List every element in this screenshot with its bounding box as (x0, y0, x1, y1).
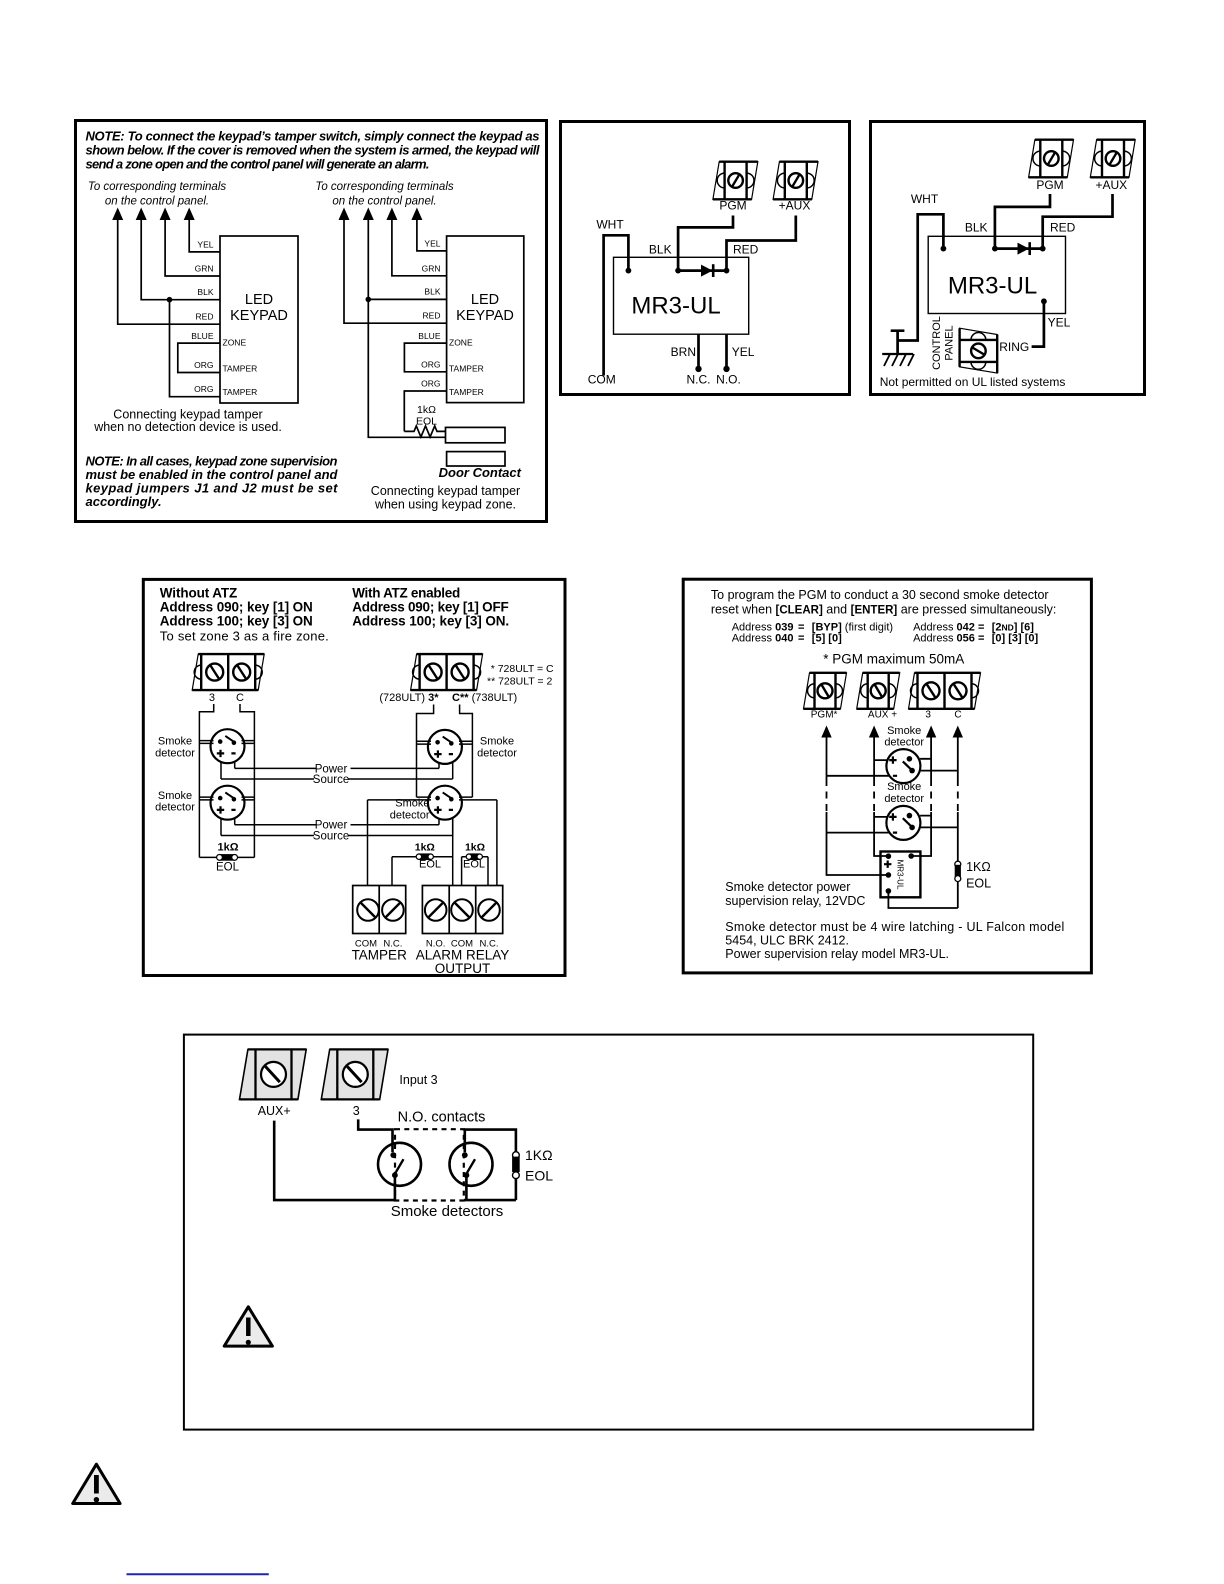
svg-text:detector: detector (155, 747, 195, 759)
wire YEL left keypad with arrow (184, 208, 220, 252)
terminal +AUX (screw) (773, 162, 818, 200)
label smoke detector SD1 (155, 736, 195, 760)
svg-text:detector: detector (884, 737, 924, 749)
svg-text:RED: RED (733, 243, 759, 257)
wire alarm relay rail right (496, 800, 498, 886)
label AUX+ (258, 1104, 291, 1118)
svg-text:Smoke: Smoke (158, 790, 192, 802)
label smoke detector SD5 (884, 725, 924, 749)
wire RED left keypad with arrow (112, 208, 219, 325)
labels power source 2 (313, 820, 349, 843)
relay MR3-UL body (box3) (928, 236, 1065, 313)
caption left diagram (93, 408, 282, 435)
terminal PGM (screw, box3) (1029, 140, 1074, 178)
wire BLUE-ORG loop (left keypad) (178, 331, 220, 373)
svg-text:Smoke: Smoke (887, 725, 921, 737)
wire +AUX to RED pin (box3) (1043, 194, 1113, 249)
wire zone rail right (from C**) (460, 705, 473, 798)
svg-text:Address 100; key [3] ON: Address 100; key [3] ON (160, 613, 313, 628)
wire EOL-A right leg to alarm relay (452, 818, 454, 886)
svg-text:MR3-UL: MR3-UL (631, 293, 720, 320)
svg-text:ZONE: ZONE (449, 338, 473, 348)
svg-text:BLK: BLK (424, 287, 440, 297)
svg-text:RED: RED (423, 311, 441, 321)
svg-text:1KΩ: 1KΩ (525, 1147, 553, 1163)
labels tamper COM N.C. (352, 939, 408, 963)
dashed group: additional detectors (395, 1129, 464, 1200)
svg-text:RED: RED (1050, 220, 1076, 234)
svg-text:PGM: PGM (1036, 178, 1063, 192)
pin labels 3 and C (209, 692, 244, 704)
svg-text:* 728ULT = C: * 728ULT = C (491, 663, 554, 675)
wire PGM to BLK pin (678, 216, 733, 271)
label door contact (439, 465, 522, 480)
label smoke detector SD4 (390, 798, 430, 822)
svg-text:detector: detector (155, 802, 195, 814)
wires SD5 to stems (827, 759, 958, 776)
smoke detector SD8 (N.O.) (450, 1143, 493, 1186)
terminal +AUX (screw, box3) (1090, 140, 1135, 178)
svg-text:1kΩ: 1kΩ (417, 404, 436, 416)
label RING (999, 340, 1029, 354)
svg-text:With ATZ enabled: With ATZ enabled (352, 585, 460, 600)
smoke detector SD1 (left) (211, 729, 245, 763)
resistor 1k EOL (left zone) (199, 841, 254, 873)
LED keypad U-left (220, 236, 298, 403)
svg-text:shown below. If the cover is r: shown below. If the cover is removed whe… (86, 143, 540, 158)
svg-text:CONTROL: CONTROL (931, 316, 943, 370)
svg-text:BLK: BLK (649, 243, 672, 257)
wire BLK branch to door contact (368, 299, 445, 437)
pin labels PGM* AUX+ 3 C (811, 709, 962, 720)
wire BLUE-ORG loop (right keypad) (404, 331, 446, 372)
resistor 1k EOL B (462, 841, 488, 885)
heading with ATZ (352, 585, 509, 628)
svg-text:Power supervision relay model: Power supervision relay model MR3-UL. (725, 947, 949, 961)
svg-text:GRN: GRN (195, 264, 214, 274)
svg-text:To program the PGM to conduct: To program the PGM to conduct a 30 secon… (711, 588, 1049, 602)
pin labels (728ULT) 3* and C** (738ULT) (379, 692, 517, 704)
wire AUX stem with arrow (869, 726, 889, 857)
note PGM maximum (823, 652, 964, 667)
pin dot WHT (box3) (941, 246, 947, 252)
svg-text:1kΩ: 1kΩ (415, 841, 435, 853)
door contact switch body (446, 427, 506, 442)
svg-text:To corresponding terminals: To corresponding terminals (315, 181, 454, 193)
panel frame: MR3-UL ring wiring box (871, 122, 1145, 395)
label PGM (719, 199, 746, 213)
svg-text:1KΩ: 1KΩ (966, 860, 991, 874)
svg-text:WHT: WHT (596, 218, 624, 232)
wire GRN right keypad with arrow (386, 208, 446, 276)
svg-text:on the control panel.: on the control panel. (105, 196, 209, 208)
door contact magnet body (447, 452, 505, 466)
panel frame: input 3 smoke detectors box (184, 1035, 1033, 1430)
svg-text:NOTE: To connect the keypad’s: NOTE: To connect the keypad’s tamper swi… (86, 129, 540, 144)
svg-text:+AUX: +AUX (779, 199, 811, 213)
svg-text:reset when [CLEAR] and [ENTER]: reset when [CLEAR] and [ENTER] are press… (711, 602, 1056, 616)
svg-text:on the control panel.: on the control panel. (332, 196, 436, 208)
svg-text:MR3-UL: MR3-UL (895, 860, 904, 890)
label CONTROL PANEL (rotated) (931, 316, 956, 370)
svg-text:TAMPER: TAMPER (223, 387, 258, 397)
svg-text:3: 3 (925, 709, 931, 720)
note text top (86, 129, 540, 172)
wire YEL right keypad with arrow (411, 208, 446, 251)
wire power source pair 2 (221, 818, 453, 836)
terminal block 3/C (screws) (192, 654, 264, 690)
svg-text:BLK: BLK (197, 287, 213, 297)
svg-text:detector: detector (477, 747, 517, 759)
svg-text:when no detection device is us: when no detection device is used. (93, 420, 282, 434)
resistor 1k EOL (keypad zone) (404, 404, 445, 437)
wires SD2 contacts to rails (199, 797, 254, 800)
caption right diagram (371, 484, 520, 511)
panel frame: PGM smoke reset programming box (683, 579, 1091, 973)
svg-text:Smoke detectors: Smoke detectors (391, 1203, 504, 1220)
svg-text:Door Contact: Door Contact (439, 465, 522, 480)
terminal AUX+ (screw) (857, 673, 900, 709)
resistor 1K EOL (box5) (955, 860, 991, 908)
smoke detector SD4 (right) (428, 786, 462, 820)
svg-text:when using keypad zone.: when using keypad zone. (374, 498, 516, 512)
warning triangle (box6) (224, 1307, 272, 1346)
svg-text:Connecting keypad tamper: Connecting keypad tamper (371, 484, 520, 498)
svg-text:TAMPER: TAMPER (449, 387, 484, 397)
svg-text:YEL: YEL (732, 345, 755, 359)
label +AUX (box3) (1095, 178, 1127, 192)
diode D1 (678, 264, 726, 277)
wire tamper rail left (367, 800, 369, 886)
svg-text:EOL: EOL (966, 876, 991, 890)
wire BLK left keypad with arrow (136, 208, 220, 300)
panel frame: keypad tamper wiring note box (76, 121, 547, 522)
resistor 1K EOL (box6) (512, 1147, 553, 1200)
wire YEL to N.O. dot (716, 334, 755, 386)
svg-text:ZONE: ZONE (223, 338, 247, 348)
caption detector model notes (725, 920, 1064, 961)
smoke detector SD3 (right) (428, 730, 462, 764)
svg-text:N.O.: N.O. (716, 373, 741, 387)
note 728ULT equivalences (487, 663, 554, 688)
svg-text:Smoke detector power: Smoke detector power (725, 880, 850, 894)
svg-text:Input 3: Input 3 (399, 1073, 437, 1087)
svg-text:Address 090; key [1] ON: Address 090; key [1] ON (160, 599, 313, 614)
svg-text:N.O. contacts: N.O. contacts (398, 1110, 486, 1126)
svg-text:YEL: YEL (1048, 315, 1071, 329)
wire PGM stem with arrow (821, 726, 888, 876)
label: to corresponding terminals (left) (88, 181, 227, 208)
label smoke detector SD3 (477, 736, 517, 760)
svg-text:** 728ULT = 2: ** 728ULT = 2 (487, 676, 552, 688)
pin dot BLK (box3) (965, 220, 998, 251)
svg-text:3: 3 (353, 1104, 360, 1118)
svg-text:PGM*: PGM* (811, 709, 838, 720)
svg-text:LED: LED (245, 292, 273, 308)
junction dot on BLK (right) (366, 297, 372, 303)
label smoke detector SD2 (155, 790, 195, 814)
smoke detector SD6 (4-wire) (886, 806, 920, 840)
label N.O. contacts (398, 1110, 486, 1126)
svg-text:5454, ULC BRK 2412.: 5454, ULC BRK 2412. (725, 933, 849, 947)
svg-text:RED: RED (196, 312, 214, 322)
label smoke detector SD6 (884, 781, 924, 805)
svg-text:ORG: ORG (421, 379, 440, 389)
svg-text:AUX+: AUX+ (258, 1104, 291, 1118)
svg-text:* PGM maximum 50mA: * PGM maximum 50mA (823, 652, 964, 667)
svg-text:supervision relay, 12VDC: supervision relay, 12VDC (725, 894, 865, 908)
terminal block (728ULT)3*/C** (screws) (411, 654, 483, 690)
svg-text:Address 056=[0] [3] [0]: Address 056=[0] [3] [0] (913, 633, 1038, 645)
svg-text:Not permitted on UL listed sys: Not permitted on UL listed systems (880, 375, 1066, 389)
wire common C stem with arrow (953, 726, 963, 862)
label PGM (box3) (1036, 178, 1063, 192)
pin dot RED (box3) (1040, 220, 1076, 251)
svg-text:EOL: EOL (463, 859, 485, 871)
svg-text:MR3-UL: MR3-UL (948, 273, 1037, 300)
smoke detector SD5 (4-wire) (886, 749, 920, 783)
svg-text:C: C (954, 709, 961, 720)
svg-text:ORG: ORG (194, 384, 213, 394)
junction dot on BLK (left) (167, 297, 173, 303)
address programming table (732, 622, 1039, 645)
svg-text:YEL: YEL (424, 239, 440, 249)
tamper terminal block (screws) (353, 886, 406, 934)
label 3 (353, 1104, 360, 1118)
svg-text:BRN: BRN (671, 345, 696, 359)
smoke detector SD2 (left) (211, 786, 245, 820)
svg-text:send a zone open and the contr: send a zone open and the control panel w… (86, 157, 430, 172)
wire power source pair 1 (221, 762, 453, 780)
wire zone 3 stem with arrow (911, 726, 936, 857)
wire +AUX to RED pin (727, 216, 796, 271)
labels power source 1 (313, 763, 349, 786)
wire WHT to earth (898, 192, 944, 340)
label smoke detectors (391, 1203, 504, 1220)
svg-text:EOL: EOL (525, 1168, 553, 1184)
resistor 1k EOL A (392, 841, 453, 870)
wire BLK right keypad with arrow (363, 208, 447, 300)
svg-text:3: 3 (209, 692, 215, 704)
svg-text:C: C (236, 692, 244, 704)
svg-text:C** (738ULT): C** (738ULT) (452, 692, 517, 704)
wire relay to EOL common (888, 891, 957, 908)
svg-text:LED: LED (471, 292, 499, 308)
svg-text:1kΩ: 1kΩ (217, 841, 238, 853)
svg-text:Source: Source (313, 831, 349, 843)
svg-text:Address 040=[5] [0]: Address 040=[5] [0] (732, 633, 842, 645)
heading without ATZ (160, 585, 329, 643)
wire SD8 bottom to EOL (464, 1178, 516, 1201)
note: not permitted on UL listed systems (880, 375, 1066, 389)
wire ORG2 to BLK junction (left keypad) (170, 300, 220, 397)
wire zone rail left (from 3*) (417, 705, 434, 798)
relay MR3-UL body (614, 257, 749, 334)
terminal PGM* (screw) (804, 673, 847, 709)
wire YEL to RING (1032, 298, 1071, 346)
svg-text:KEYPAD: KEYPAD (230, 308, 288, 324)
note text bottom (86, 453, 339, 509)
svg-text:YEL: YEL (197, 240, 213, 250)
label +AUX (779, 199, 811, 213)
wire SD8 top to EOL (465, 1130, 516, 1153)
panel frame: MR3-UL relay wiring box (561, 122, 850, 395)
wire ORG2 to EOL resistor (right keypad) (404, 379, 446, 432)
paragraph: program PGM (711, 588, 1056, 616)
svg-text:RING: RING (999, 340, 1029, 354)
svg-text:Without ATZ: Without ATZ (160, 585, 238, 600)
svg-text:To set zone 3 as a fire zone.: To set zone 3 as a fire zone. (160, 629, 329, 644)
label: to corresponding terminals (right) (315, 181, 454, 208)
wire zone 3 to SD7 (358, 1119, 392, 1152)
wire PGM to BLK pin (box3) (995, 194, 1050, 249)
svg-text:(728ULT) 3*: (728ULT) 3* (379, 692, 439, 704)
svg-text:1kΩ: 1kΩ (465, 841, 485, 853)
relay pin dots (886, 853, 914, 894)
wire AUX+ common bottom (274, 1121, 395, 1201)
terminal block 3/C (screws, box5) (909, 673, 981, 709)
svg-text:KEYPAD: KEYPAD (456, 308, 514, 324)
svg-text:WHT: WHT (911, 192, 939, 206)
svg-text:Smoke detector must be 4 wire: Smoke detector must be 4 wire latching -… (725, 920, 1064, 934)
footer rule (blue) (127, 1573, 269, 1575)
svg-text:Address 090; key [1] OFF: Address 090; key [1] OFF (352, 599, 509, 614)
terminal 3 (gray screw) (321, 1049, 388, 1099)
svg-text:COM: COM (588, 373, 616, 387)
svg-text:BLUE: BLUE (191, 331, 214, 341)
wires SD6 to stems (827, 816, 958, 833)
svg-text:Source: Source (313, 774, 349, 786)
control panel terminal (vertical screw) (960, 328, 998, 373)
svg-text:EOL: EOL (216, 862, 240, 874)
smoke detector SD7 (N.O.) (378, 1143, 421, 1186)
wires SD3 contacts to rails (417, 741, 473, 744)
terminal PGM (screw) (713, 162, 758, 200)
label COM (588, 373, 616, 387)
wire BRN to N.C. dot (671, 334, 711, 386)
svg-text:EOL: EOL (419, 859, 441, 871)
wires SD1 contacts to rails (199, 741, 254, 744)
relay MR3-UL (supervision) (881, 852, 921, 898)
svg-text:detector: detector (390, 809, 430, 821)
terminal AUX+ (gray screw) (240, 1049, 307, 1099)
svg-text:EOL: EOL (416, 416, 437, 428)
svg-text:Smoke: Smoke (158, 736, 192, 748)
caption supervision relay (725, 880, 865, 908)
pin dot WHT (626, 268, 632, 274)
svg-text:Smoke: Smoke (480, 736, 514, 748)
svg-text:Address 100; key [3] ON.: Address 100; key [3] ON. (352, 613, 509, 628)
svg-text:accordingly.: accordingly. (86, 494, 162, 509)
wires SD4 contacts to rails and outputs (368, 797, 497, 800)
labels alarm relay output (416, 939, 510, 977)
warning triangle (footer) (73, 1464, 120, 1503)
alarm relay output terminal block (screws) (422, 886, 502, 934)
svg-text:+AUX: +AUX (1095, 178, 1127, 192)
diode D1 (box3) (995, 242, 1043, 255)
svg-text:PGM: PGM (719, 199, 746, 213)
svg-text:ORG: ORG (194, 360, 213, 370)
svg-text:OUTPUT: OUTPUT (435, 961, 491, 976)
svg-text:BLK: BLK (965, 220, 988, 234)
svg-text:detector: detector (884, 793, 924, 805)
wire RED right keypad with arrow (339, 208, 447, 324)
svg-text:GRN: GRN (422, 263, 441, 273)
svg-text:BLUE: BLUE (418, 331, 441, 341)
label input 3 (399, 1073, 437, 1087)
svg-text:AUX +: AUX + (868, 709, 897, 720)
pin dot RED (724, 243, 759, 274)
svg-text:To corresponding terminals: To corresponding terminals (88, 181, 227, 193)
pin dot BLK (649, 243, 681, 274)
svg-text:ORG: ORG (421, 359, 440, 369)
wire zone rail right (from C) (240, 704, 254, 857)
LED keypad U-right (447, 236, 524, 403)
panel frame: ATZ smoke detector wiring box (143, 579, 565, 975)
svg-text:N.C.: N.C. (687, 373, 711, 387)
svg-text:TAMPER: TAMPER (223, 363, 258, 373)
svg-text:TAMPER: TAMPER (449, 363, 484, 373)
wire WHT to COM (596, 218, 628, 376)
svg-text:Smoke: Smoke (395, 798, 429, 810)
wire EOL-A left leg to tamper N.C. (391, 857, 393, 886)
svg-text:TAMPER: TAMPER (352, 948, 408, 963)
svg-text:PANEL: PANEL (944, 325, 956, 360)
svg-text:Smoke: Smoke (887, 781, 921, 793)
wire zone rail left (from 3) (199, 704, 213, 857)
wire GRN left keypad with arrow (160, 208, 220, 277)
earth ground symbol (882, 331, 914, 366)
wire SD7 bottom stub (394, 1178, 397, 1201)
